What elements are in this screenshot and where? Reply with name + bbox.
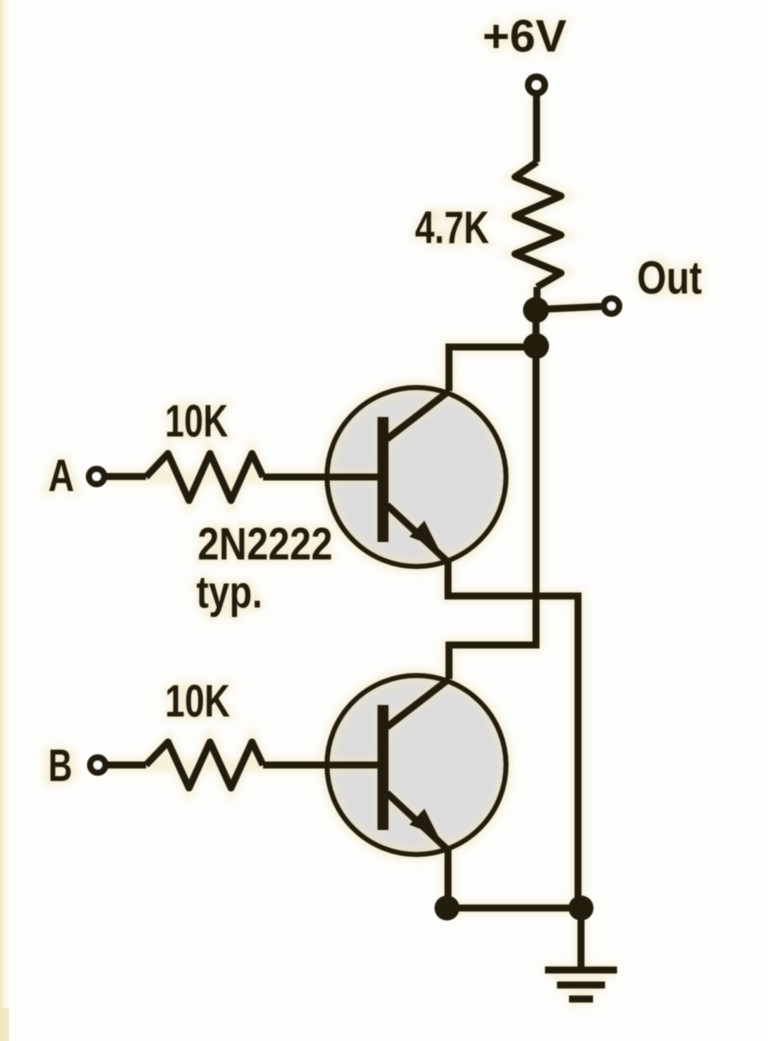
junction collector node bbox=[523, 333, 549, 359]
wire node to Q1 collector bbox=[449, 347, 536, 391]
junction output node bbox=[523, 297, 549, 323]
node +6V supply terminal bbox=[528, 77, 544, 93]
wire output node to Out terminal bbox=[537, 307, 601, 310]
svg-text:B: B bbox=[48, 740, 72, 791]
node input B terminal bbox=[90, 757, 105, 772]
wire ground rail bbox=[447, 905, 581, 912]
transistor Q2 outline bbox=[327, 676, 506, 855]
svg-text:typ.: typ. bbox=[196, 567, 262, 618]
wire B terminal to resistor bbox=[108, 762, 146, 769]
wire Q1 emitter to ground rail bbox=[448, 560, 578, 908]
junction rail / ground bbox=[569, 896, 594, 921]
transistor Q2 emitter lead bbox=[387, 793, 448, 850]
transistor Q2 emitter arrow bbox=[412, 811, 436, 834]
wire rail to ground symbol bbox=[578, 908, 585, 968]
resistor R2 10K (input A) bbox=[146, 454, 263, 501]
wire +6V to resistor bbox=[533, 96, 540, 162]
wire resistor to Q1 base bbox=[263, 474, 380, 481]
svg-text:2N2222: 2N2222 bbox=[198, 519, 333, 570]
wire resistor to output node bbox=[534, 287, 541, 310]
transistor Q1 emitter arrow bbox=[412, 523, 436, 546]
transistor Q1 base bar bbox=[378, 417, 389, 542]
svg-text:Out: Out bbox=[637, 252, 702, 304]
transistor Q1 collector lead bbox=[387, 391, 449, 439]
junction Q2 emitter / rail bbox=[435, 896, 460, 921]
svg-text:10K: 10K bbox=[165, 396, 228, 447]
svg-text:4.7K: 4.7K bbox=[415, 202, 489, 253]
ground symbol bbox=[545, 970, 617, 999]
wire A terminal to resistor bbox=[107, 473, 146, 480]
transistor Q2 bbox=[327, 676, 506, 855]
transistor Q2 base bar bbox=[378, 705, 389, 830]
node Out terminal bbox=[604, 298, 619, 313]
svg-text:A: A bbox=[48, 450, 74, 501]
resistor R1 4.7K bbox=[515, 162, 561, 287]
svg-text:+6V: +6V bbox=[483, 11, 567, 62]
node input A terminal bbox=[89, 469, 104, 484]
resistor R3 10K (input B) bbox=[146, 742, 263, 788]
transistor Q2 collector lead bbox=[387, 679, 449, 727]
wire Q2 emitter to ground rail bbox=[445, 848, 452, 908]
transistor Q1 outline bbox=[327, 388, 506, 567]
svg-text:10K: 10K bbox=[165, 676, 230, 727]
wire node down to Q2 collector branch bbox=[449, 346, 536, 679]
wire between output junctions bbox=[533, 310, 540, 346]
transistor Q1 bbox=[327, 388, 506, 567]
wire resistor to Q2 base bbox=[263, 762, 380, 769]
transistor Q1 emitter lead bbox=[387, 505, 448, 562]
